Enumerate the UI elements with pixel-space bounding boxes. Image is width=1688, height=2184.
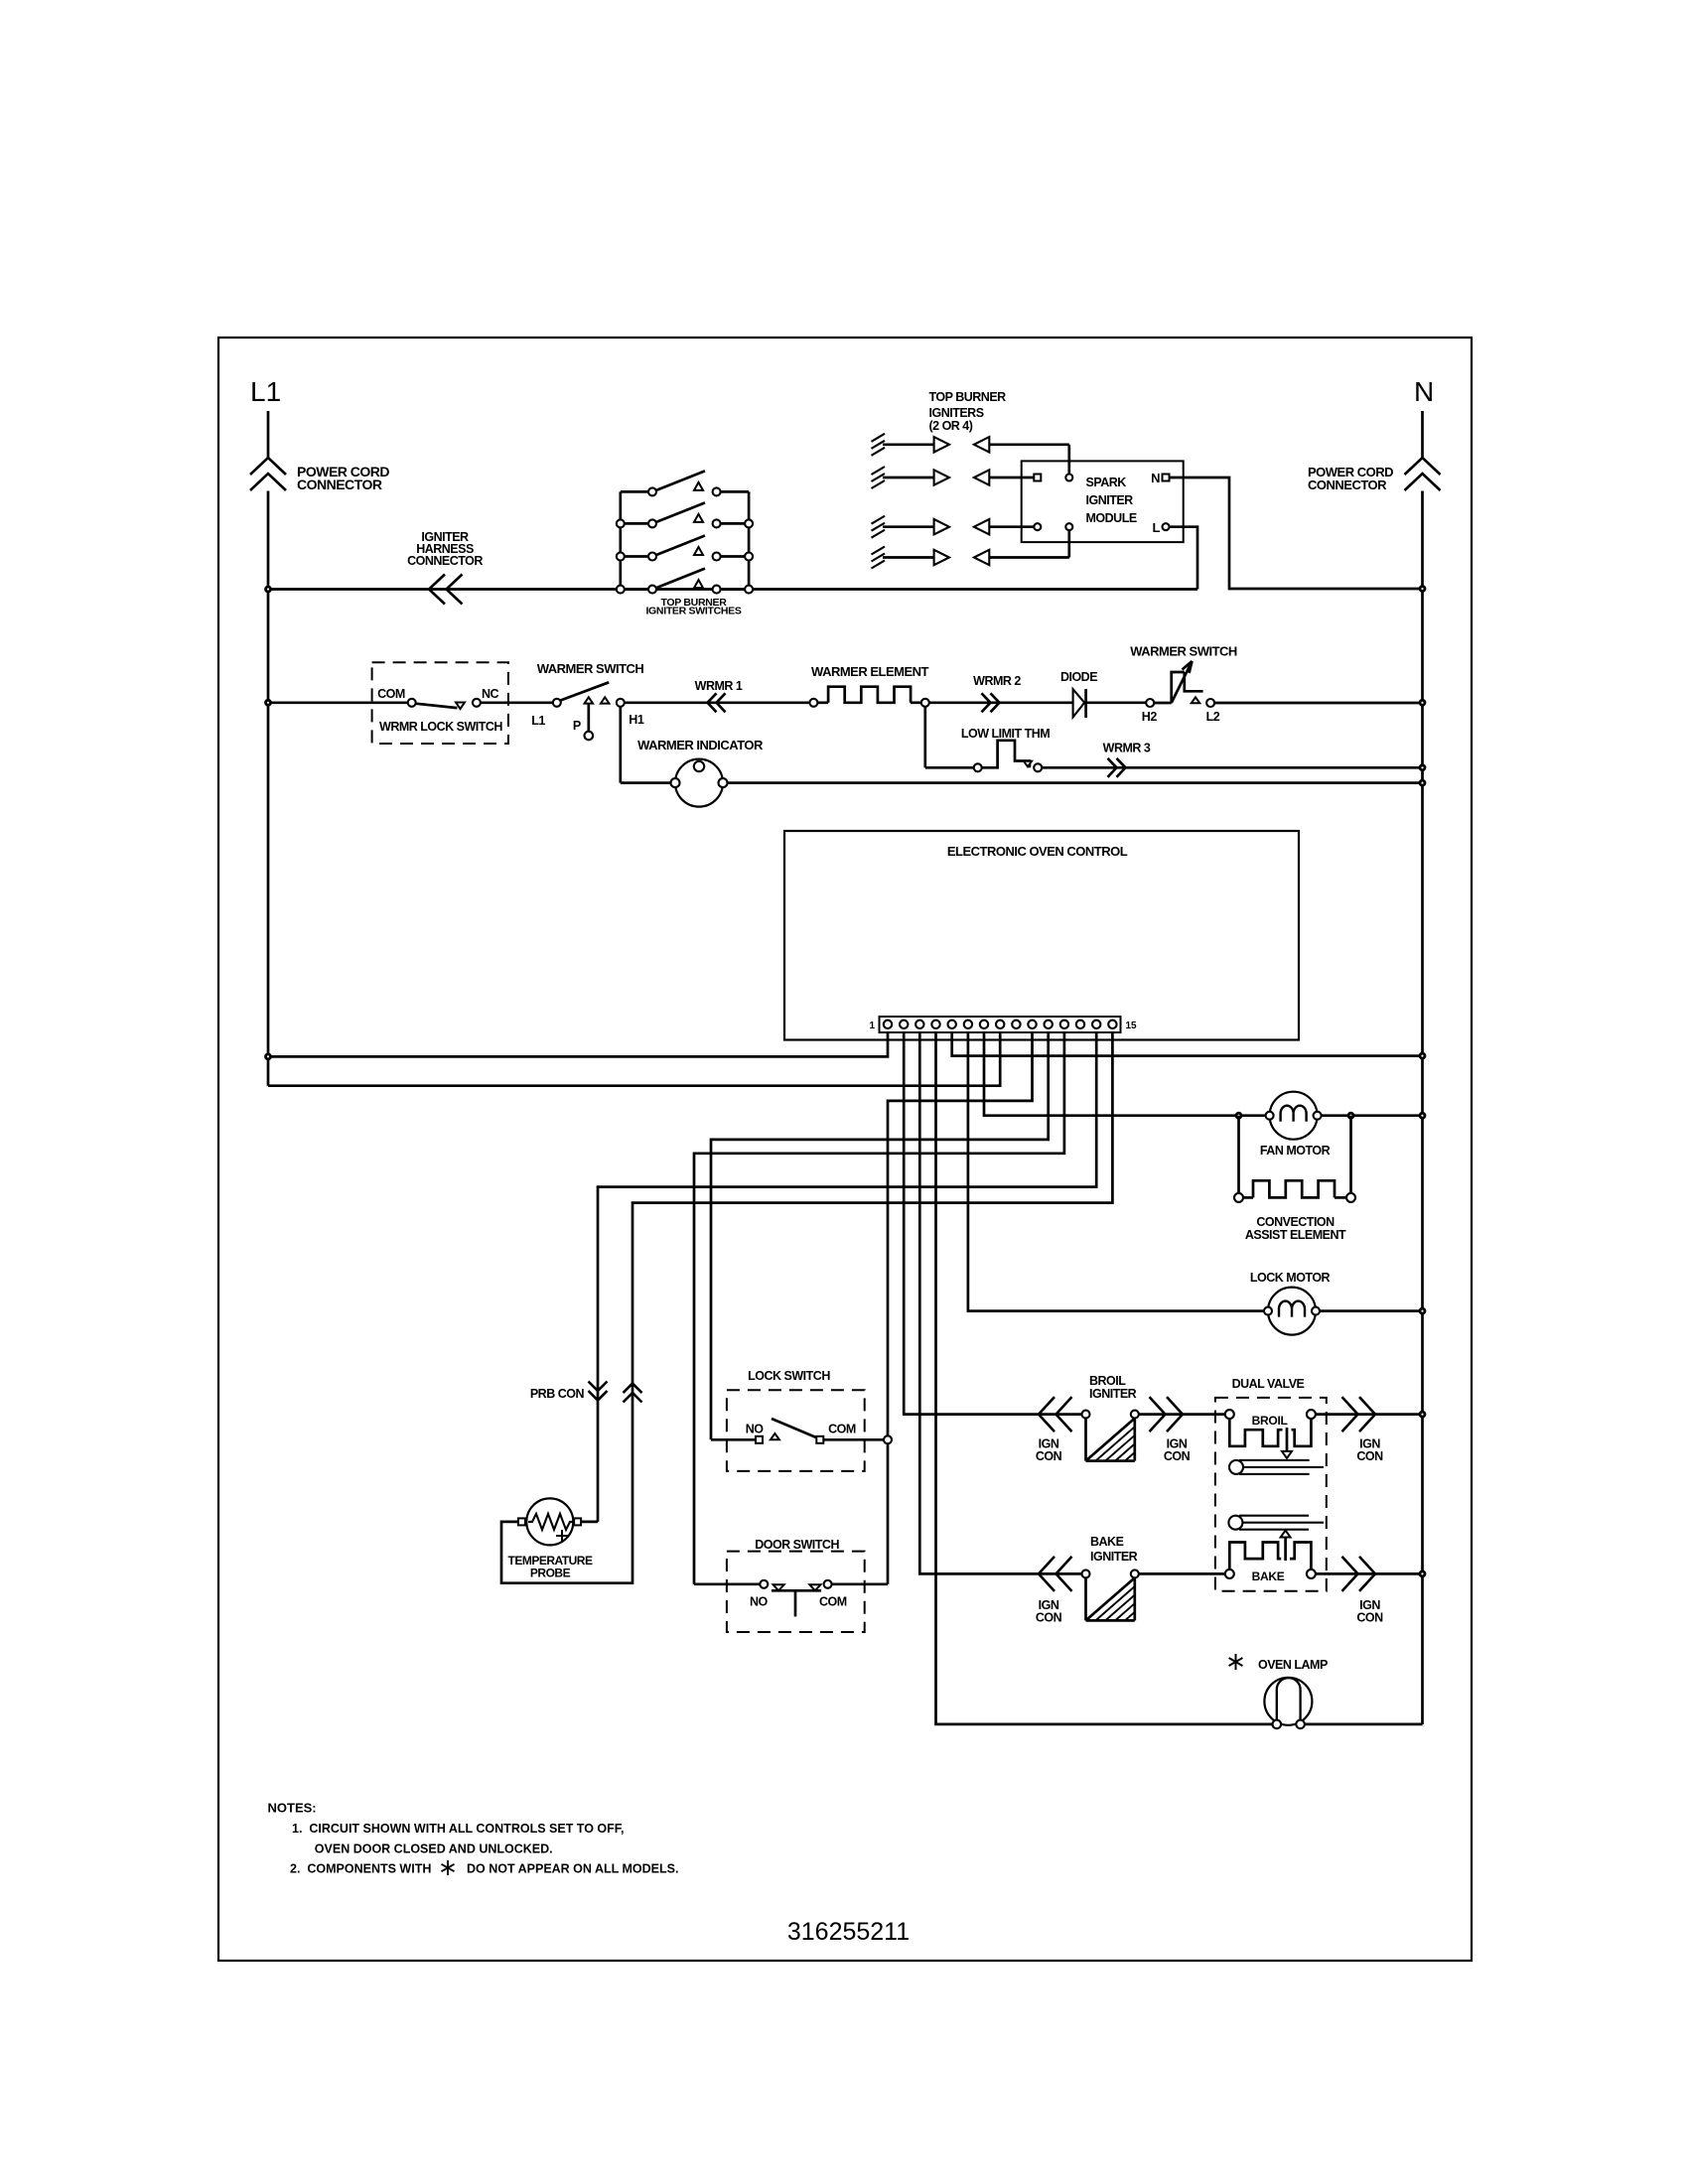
svg-text:H2: H2 bbox=[1142, 710, 1158, 724]
wire element junction down bbox=[925, 707, 974, 768]
svg-text:CON: CON bbox=[1164, 1449, 1191, 1463]
label broil valve bbox=[1252, 1414, 1288, 1428]
label broil igniter bbox=[1089, 1374, 1137, 1401]
svg-text:OVEN DOOR CLOSED AND UNLOCKED.: OVEN DOOR CLOSED AND UNLOCKED. bbox=[315, 1843, 553, 1856]
label warmer switch (right) bbox=[1130, 644, 1237, 659]
svg-text:FAN MOTOR: FAN MOTOR bbox=[1260, 1144, 1331, 1158]
label note 1b bbox=[315, 1843, 553, 1856]
svg-text:L1: L1 bbox=[250, 376, 281, 407]
dual valve box bbox=[1215, 1398, 1327, 1591]
label wrmr 2 bbox=[973, 674, 1021, 688]
wire igniter row2 to module bbox=[989, 477, 1034, 479]
node N label bbox=[1414, 376, 1434, 407]
svg-text:N: N bbox=[1414, 376, 1434, 407]
svg-text:NOTES:: NOTES: bbox=[268, 1801, 317, 1816]
svg-text:ELECTRONIC OVEN CONTROL: ELECTRONIC OVEN CONTROL bbox=[947, 844, 1128, 859]
svg-text:WARMER INDICATOR: WARMER INDICATOR bbox=[637, 738, 764, 752]
wire probe right lead bbox=[581, 1521, 598, 1524]
svg-text:LOCK SWITCH: LOCK SWITCH bbox=[748, 1369, 830, 1383]
wire warmer junction to wrmr2 bbox=[929, 701, 1073, 704]
svg-text:IGNITER SWITCHES: IGNITER SWITCHES bbox=[645, 606, 741, 617]
svg-text:DIODE: DIODE bbox=[1060, 670, 1097, 684]
svg-text:L1: L1 bbox=[531, 714, 545, 728]
EOC terminal strip (pins 1-15) bbox=[880, 1017, 1121, 1032]
warmer element terminal bbox=[809, 699, 817, 707]
svg-text:1. CIRCUIT SHOWN WITH ALL CON: 1. CIRCUIT SHOWN WITH ALL CONTROLS SET T… bbox=[292, 1822, 625, 1836]
svg-text:WRMR 1: WRMR 1 bbox=[695, 679, 743, 693]
wire lock COM to junction bbox=[823, 1438, 888, 1441]
wrmr 2 connector chevrons bbox=[982, 693, 1000, 712]
label NO (door) bbox=[750, 1594, 769, 1608]
bake valve coil bbox=[1225, 1543, 1316, 1578]
wire low limit to N rail bbox=[1042, 765, 1425, 770]
broil ign con connector (mid) bbox=[1150, 1397, 1184, 1432]
svg-text:CON: CON bbox=[1036, 1611, 1062, 1625]
label top burner igniter switches bbox=[645, 597, 741, 617]
svg-text:DOOR SWITCH: DOOR SWITCH bbox=[755, 1538, 839, 1552]
wire pin14 to temperature probe bbox=[598, 1032, 1096, 1522]
lock switch box bbox=[727, 1390, 865, 1471]
label oven lamp bbox=[1258, 1658, 1328, 1672]
svg-text:H1: H1 bbox=[629, 713, 644, 727]
lock switch S1 bbox=[756, 1419, 823, 1443]
svg-text:PROBE: PROBE bbox=[530, 1567, 571, 1580]
svg-text:WRMR LOCK SWITCH: WRMR LOCK SWITCH bbox=[379, 720, 502, 734]
svg-text:BROIL: BROIL bbox=[1252, 1414, 1288, 1428]
fan motor M1 bbox=[1266, 1092, 1322, 1140]
convection assist element bbox=[1234, 1180, 1355, 1202]
svg-text:BAKE: BAKE bbox=[1090, 1535, 1124, 1549]
svg-text:2. COMPONENTS WITH: 2. COMPONENTS WITH bbox=[290, 1862, 431, 1876]
border frame bbox=[218, 338, 1472, 1961]
label H1 terminal bbox=[629, 713, 644, 727]
svg-text:COM: COM bbox=[377, 687, 405, 701]
oven lamp DS1 bbox=[1264, 1678, 1312, 1728]
svg-text:CONNECTOR: CONNECTOR bbox=[297, 477, 382, 492]
node fan motor junction left bbox=[1236, 1113, 1241, 1118]
label warmer indicator bbox=[637, 738, 764, 752]
wire warmer line L1 rail to COM bbox=[266, 700, 408, 705]
component marker asterisk bbox=[1229, 1654, 1243, 1670]
top burner igniter switches bbox=[617, 471, 753, 593]
wire door NO lead bbox=[694, 1582, 760, 1585]
bake igniter bbox=[1082, 1570, 1139, 1620]
label wrmr lock switch bbox=[379, 720, 502, 734]
low limit thermostat bbox=[974, 741, 1042, 772]
wire module N to N rail bbox=[1170, 478, 1426, 592]
svg-text:WRMR 2: WRMR 2 bbox=[973, 674, 1021, 688]
svg-text:CONNECTOR: CONNECTOR bbox=[407, 554, 483, 568]
svg-text:DUAL VALVE: DUAL VALVE bbox=[1232, 1377, 1305, 1391]
wire igniter row3 to module bbox=[989, 525, 1034, 528]
wire L1 rail bbox=[267, 491, 270, 1086]
wire igniter row4 to module bbox=[989, 527, 1069, 558]
svg-text:LOW LIMIT THM: LOW LIMIT THM bbox=[961, 727, 1050, 741]
label ign con (bake left) bbox=[1036, 1598, 1062, 1625]
wire pin2 to broil line bbox=[904, 1032, 1081, 1415]
label warmer element bbox=[811, 664, 929, 679]
door switch box bbox=[727, 1552, 865, 1632]
wire module L to harness bbox=[1170, 527, 1198, 590]
bake valve outlet pipe bbox=[1228, 1516, 1324, 1530]
wire pin11 to lock switch NO bbox=[711, 1032, 1049, 1439]
svg-text:CONVECTION: CONVECTION bbox=[1256, 1215, 1335, 1229]
broil valve arrow bbox=[1282, 1428, 1292, 1458]
wrmr 1 connector chevrons bbox=[708, 693, 726, 712]
svg-text:DO NOT APPEAR ON ALL MODELS.: DO NOT APPEAR ON ALL MODELS. bbox=[467, 1862, 678, 1876]
svg-text:IGNITER: IGNITER bbox=[1090, 1550, 1138, 1564]
label door switch bbox=[755, 1538, 839, 1552]
label power cord connector (right) bbox=[1308, 465, 1393, 492]
label low limit thm bbox=[961, 727, 1050, 741]
wire diode to H2 bbox=[1086, 701, 1147, 704]
wire pin8 to L1 rail bottom bbox=[268, 1032, 1000, 1086]
label note 1 bbox=[292, 1822, 625, 1836]
broil valve coil bbox=[1225, 1410, 1316, 1446]
node lock COM junction bbox=[884, 1435, 892, 1443]
svg-text:ASSIST ELEMENT: ASSIST ELEMENT bbox=[1245, 1228, 1346, 1242]
svg-text:WARMER ELEMENT: WARMER ELEMENT bbox=[811, 664, 929, 679]
wire lock NO lead bbox=[711, 1438, 756, 1441]
wire bake valve to N rail bbox=[1316, 1571, 1425, 1576]
label part number 316255211 bbox=[787, 1918, 910, 1946]
wire pin7 to fan motor line bbox=[984, 1032, 1425, 1118]
note 2 asterisk bbox=[442, 1860, 455, 1875]
svg-text:IGNITER: IGNITER bbox=[1089, 1387, 1137, 1401]
label convection assist element bbox=[1245, 1215, 1346, 1242]
label warmer switch (main) bbox=[537, 661, 644, 676]
label bake igniter bbox=[1090, 1535, 1138, 1564]
svg-text:CON: CON bbox=[1356, 1449, 1383, 1463]
svg-text:CONNECTOR: CONNECTOR bbox=[1308, 478, 1387, 492]
wire N rail bbox=[1421, 491, 1424, 1724]
wire pin3 to bake line bbox=[919, 1032, 1081, 1573]
broil ign con connector (left) bbox=[1039, 1397, 1072, 1432]
broil ign con connector (right) bbox=[1342, 1397, 1376, 1432]
bake valve arrow bbox=[1281, 1531, 1291, 1562]
label L2 terminal bbox=[1206, 710, 1220, 724]
svg-text:316255211: 316255211 bbox=[787, 1918, 910, 1946]
prb con connector (down) bbox=[589, 1382, 608, 1401]
diode D1 bbox=[1073, 689, 1086, 718]
svg-text:OVEN LAMP: OVEN LAMP bbox=[1258, 1658, 1328, 1672]
svg-text:MODULE: MODULE bbox=[1086, 511, 1137, 525]
warmer indicator bbox=[671, 759, 728, 807]
wrmr lock switch bbox=[408, 699, 481, 709]
wire pin4 to oven lamp line bbox=[936, 1032, 1273, 1724]
bake ign con connector (left) bbox=[1039, 1557, 1072, 1591]
label lock motor bbox=[1250, 1271, 1331, 1285]
label note 2b bbox=[467, 1862, 678, 1876]
label ign con (broil left) bbox=[1036, 1437, 1062, 1464]
label fan motor bbox=[1260, 1144, 1331, 1158]
svg-text:BROIL: BROIL bbox=[1089, 1374, 1126, 1388]
svg-text:NO: NO bbox=[746, 1422, 765, 1435]
svg-text:NC: NC bbox=[482, 687, 499, 701]
svg-text:SPARK: SPARK bbox=[1086, 476, 1127, 489]
broil igniter bbox=[1082, 1411, 1139, 1461]
label note 2a bbox=[290, 1862, 431, 1876]
temperature probe RT1 bbox=[518, 1498, 581, 1545]
door switch S2 bbox=[760, 1580, 831, 1617]
svg-text:LOCK MOTOR: LOCK MOTOR bbox=[1250, 1271, 1331, 1285]
wire pin15 to temperature probe bbox=[501, 1032, 1112, 1583]
wire oven lamp to N rail bbox=[1305, 1723, 1423, 1726]
label COM (door) bbox=[819, 1594, 847, 1608]
warmer switch (H2/L2) bbox=[1146, 661, 1214, 707]
igniter harness connector chevrons bbox=[429, 575, 463, 605]
label electronic oven control bbox=[947, 844, 1128, 859]
label wrmr 3 bbox=[1103, 742, 1151, 755]
svg-text:1: 1 bbox=[869, 1021, 875, 1031]
label L1 terminal bbox=[531, 714, 545, 728]
svg-text:L: L bbox=[1153, 520, 1161, 535]
node fan motor junction right bbox=[1348, 1113, 1353, 1118]
label COM (lock) bbox=[828, 1422, 856, 1435]
label power cord connector (left) bbox=[297, 464, 389, 492]
svg-text:WARMER SWITCH: WARMER SWITCH bbox=[1130, 644, 1237, 659]
label diode bbox=[1060, 670, 1097, 684]
power cord connector (N) bbox=[1405, 411, 1441, 490]
wire pin12 to door switch NO bbox=[694, 1032, 1064, 1584]
label NC (wrmr lock) bbox=[482, 687, 499, 701]
bake ign con connector (right) bbox=[1342, 1557, 1376, 1591]
svg-text:WARMER SWITCH: WARMER SWITCH bbox=[537, 661, 644, 676]
svg-text:NO: NO bbox=[750, 1594, 769, 1608]
svg-text:15: 15 bbox=[1126, 1021, 1138, 1031]
wire NC to L1 terminal bbox=[481, 701, 553, 704]
label lock switch bbox=[748, 1369, 830, 1383]
spark module terminals bbox=[1034, 475, 1169, 531]
wire pin10 to lock/door COM bbox=[888, 1032, 1033, 1584]
svg-text:IGNITER: IGNITER bbox=[1086, 493, 1134, 507]
label igniter harness connector bbox=[407, 530, 483, 568]
wrmr 3 connector chevrons bbox=[1108, 758, 1126, 777]
node L1 label bbox=[250, 376, 281, 407]
svg-text:(2 OR 4): (2 OR 4) bbox=[929, 419, 973, 433]
wire H1 down to indicator bbox=[621, 707, 1425, 785]
label P terminal bbox=[573, 719, 581, 733]
warmer switch (main) bbox=[553, 682, 625, 740]
svg-text:CON: CON bbox=[1036, 1449, 1062, 1463]
lock motor M2 bbox=[1264, 1288, 1320, 1335]
wrmr lock switch box bbox=[372, 662, 508, 744]
wire L2 to N rail bbox=[1214, 700, 1425, 705]
svg-text:BAKE: BAKE bbox=[1252, 1570, 1285, 1583]
wire fan junctions down bbox=[1239, 1116, 1351, 1193]
label top burner igniters bbox=[929, 390, 1007, 433]
spark igniter module box bbox=[1022, 461, 1184, 542]
label COM (wrmr lock) bbox=[377, 687, 405, 701]
wire door COM to riser bbox=[832, 1582, 888, 1585]
label pin 1 bbox=[869, 1021, 875, 1031]
label dual valve bbox=[1232, 1377, 1305, 1391]
svg-text:COM: COM bbox=[819, 1594, 847, 1608]
label notes bbox=[268, 1801, 317, 1816]
label temperature probe bbox=[508, 1554, 593, 1580]
prb con connector (up) bbox=[624, 1384, 642, 1403]
svg-text:N: N bbox=[1151, 471, 1160, 485]
svg-text:IGNITERS: IGNITERS bbox=[929, 406, 984, 420]
label pin 15 bbox=[1126, 1021, 1138, 1031]
wire broil valve to N rail bbox=[1316, 1412, 1425, 1417]
svg-text:CON: CON bbox=[1356, 1611, 1383, 1625]
wire igniter harness (L1 to spark module L) bbox=[266, 587, 1198, 592]
electronic oven control box bbox=[784, 831, 1299, 1040]
wire pin1 to L1 rail bbox=[266, 1032, 889, 1059]
wire broil igniter to valve bbox=[1139, 1413, 1226, 1416]
label module pin N bbox=[1151, 471, 1160, 485]
node warmer element junction bbox=[921, 699, 929, 707]
wire pin5 to N rail bbox=[952, 1032, 1425, 1058]
top burner igniters (4 spark gaps) bbox=[872, 434, 990, 569]
label ign con (broil mid) bbox=[1164, 1437, 1191, 1464]
label ign con (broil right) bbox=[1356, 1437, 1383, 1464]
wire pin6 to lock motor line bbox=[968, 1032, 1425, 1313]
wire igniter row1 to module bbox=[989, 445, 1069, 478]
warmer element bbox=[817, 687, 920, 703]
svg-text:P: P bbox=[573, 719, 581, 733]
svg-text:WRMR 3: WRMR 3 bbox=[1103, 742, 1151, 755]
svg-text:L2: L2 bbox=[1206, 710, 1220, 724]
svg-text:COM: COM bbox=[828, 1422, 856, 1435]
label prb con bbox=[530, 1387, 585, 1401]
label bake valve bbox=[1252, 1570, 1285, 1583]
label NO (lock) bbox=[746, 1422, 765, 1435]
svg-text:PRB CON: PRB CON bbox=[530, 1387, 585, 1401]
label H2 terminal bbox=[1142, 710, 1158, 724]
broil valve outlet pipe bbox=[1229, 1460, 1324, 1474]
wire bake igniter to valve bbox=[1139, 1572, 1226, 1575]
svg-text:TOP BURNER: TOP BURNER bbox=[929, 390, 1007, 404]
wire H1 to warmer element bbox=[625, 701, 810, 704]
power cord connector (L1) bbox=[250, 411, 286, 490]
label ign con (bake right) bbox=[1356, 1598, 1383, 1625]
label wrmr 1 bbox=[695, 679, 743, 693]
label module pin L bbox=[1153, 520, 1161, 535]
label spark igniter module bbox=[1086, 476, 1137, 525]
